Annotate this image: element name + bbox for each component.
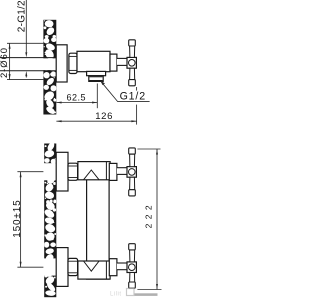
- handle upper spoke (top view): [130, 46, 135, 57]
- hex nut (top inlet): [68, 163, 78, 180]
- leader G1/2 (top view): [101, 82, 149, 102]
- extension line top inlet center: [17, 171, 43, 173]
- leader line 2-G1/2 (upper segment): [25, 0, 27, 52]
- outlet flange (top view): [87, 71, 106, 75]
- extension line outlet center: [96, 84, 98, 109]
- wall section (bottom view): [43, 141, 57, 297]
- outlet thread band: [89, 80, 102, 82]
- valve bonnet (bottom handle): [109, 259, 117, 276]
- handle lower end cap (top handle): [129, 190, 136, 196]
- handle upper end cap (top handle): [129, 148, 136, 154]
- inlet boss top: [78, 162, 110, 180]
- handle lower spoke (top view): [130, 68, 135, 79]
- handle lower spoke (bottom handle): [130, 273, 135, 283]
- svg-text:222: 222: [143, 201, 153, 228]
- extension line 126 (below text): [136, 105, 138, 125]
- handle hub (top view): [127, 57, 136, 68]
- dimension 62.5: [56, 102, 97, 104]
- extension line dia60 bottom: [7, 79, 43, 81]
- svg-text:150±15: 150±15: [12, 199, 23, 237]
- inlet boss bottom: [78, 261, 110, 279]
- handle hub (top handle): [127, 167, 136, 178]
- handle stem (top handle): [117, 168, 127, 175]
- body tube (bottom view): [87, 162, 110, 280]
- dimension line 150±15: [20, 172, 22, 268]
- handle lower end cap (top view): [129, 80, 136, 86]
- outlet collar band: [89, 76, 102, 77]
- leader line 2-G1/2 (lower segment): [25, 76, 27, 78]
- outlet spout (top view): [89, 76, 103, 82]
- extension line handle bottom: [137, 289, 161, 291]
- valve bonnet (top view): [110, 54, 117, 71]
- wall section (top view): [43, 20, 57, 116]
- hex nut (bottom inlet): [68, 258, 78, 275]
- dimension line dia60: [9, 43, 11, 79]
- extension line dia60 top: [7, 42, 43, 44]
- extension line handle top: [137, 148, 160, 150]
- extension line 126 (above text): [136, 87, 138, 91]
- handle stem (bottom handle): [117, 263, 127, 270]
- hex nut (top view): [69, 53, 77, 73]
- handle lower spoke (top handle): [130, 177, 135, 190]
- faint watermark: [110, 289, 158, 298]
- handle lower end cap (bottom handle): [129, 282, 136, 288]
- svg-text:62.5: 62.5: [67, 92, 87, 102]
- handle upper spoke (bottom handle): [130, 250, 135, 262]
- handle stem (top view): [117, 58, 127, 65]
- escutcheon flange (top inlet): [56, 152, 68, 191]
- supply pipe through wall (top view): [0, 57, 56, 59]
- svg-text:2-G1/2: 2-G1/2: [16, 0, 27, 32]
- boss cone lines (bottom): [84, 261, 100, 271]
- escutcheon flange (bottom inlet): [56, 248, 68, 287]
- handle upper spoke (top handle): [130, 154, 135, 167]
- svg-text:2-Ø60: 2-Ø60: [0, 47, 10, 78]
- svg-text:126: 126: [95, 111, 113, 122]
- svg-text:Lilit: Lilit: [110, 292, 122, 298]
- svg-text:G1/2: G1/2: [120, 91, 146, 103]
- handle upper end cap (bottom handle): [129, 244, 136, 250]
- valve body (top view): [77, 51, 110, 71]
- valve bonnet (top handle): [109, 163, 117, 180]
- extension line bottom inlet center: [17, 266, 43, 268]
- handle upper end cap (top view): [129, 40, 136, 46]
- handle hub (bottom handle): [127, 262, 136, 273]
- boss cone lines (top): [84, 170, 100, 180]
- dimension line 222: [156, 149, 158, 290]
- escutcheon flange (top view): [56, 45, 67, 82]
- dimension line 126: [56, 120, 136, 122]
- nut facet lines: [69, 55, 76, 57]
